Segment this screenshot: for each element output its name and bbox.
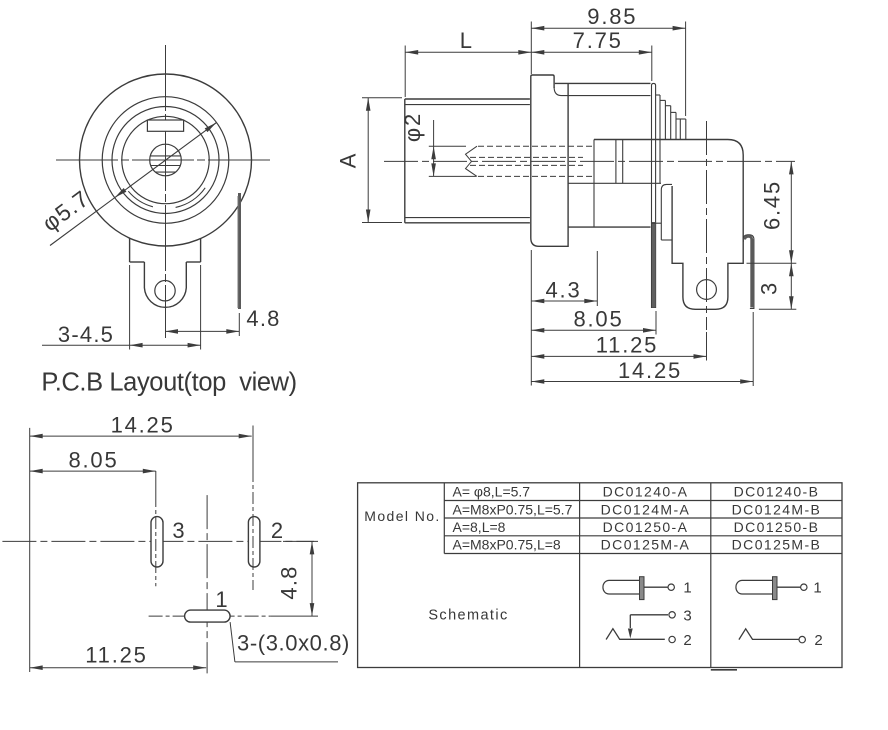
svg-text:4.8: 4.8 <box>246 306 280 331</box>
svg-text:Model No.: Model No. <box>364 508 440 524</box>
svg-text:L: L <box>460 28 474 53</box>
svg-text:A: A <box>336 152 361 168</box>
svg-text:DC01250-A: DC01250-A <box>603 519 689 535</box>
svg-text:14.25: 14.25 <box>111 413 175 438</box>
svg-text:9.85: 9.85 <box>587 4 637 29</box>
svg-text:A= φ8,L=5.7: A= φ8,L=5.7 <box>453 484 531 500</box>
svg-text:4.3: 4.3 <box>546 278 582 303</box>
svg-text:4.8: 4.8 <box>277 565 302 599</box>
svg-text:1: 1 <box>683 580 691 597</box>
svg-text:1: 1 <box>215 587 227 612</box>
svg-text:6.45: 6.45 <box>760 180 785 230</box>
svg-text:11.25: 11.25 <box>596 333 658 358</box>
svg-text:φ2: φ2 <box>400 112 425 142</box>
svg-text:DC01240-B: DC01240-B <box>734 484 820 500</box>
svg-text:2: 2 <box>683 632 691 649</box>
svg-text:3: 3 <box>683 607 691 624</box>
svg-text:DC01240-A: DC01240-A <box>603 484 689 500</box>
svg-text:3-(3.0x0.8): 3-(3.0x0.8) <box>237 631 350 656</box>
svg-text:14.25: 14.25 <box>618 358 682 383</box>
svg-text:A=M8xP0.75,L=8: A=M8xP0.75,L=8 <box>453 537 561 553</box>
svg-text:DC0125M-A: DC0125M-A <box>601 537 691 553</box>
svg-text:DC01250-B: DC01250-B <box>734 519 820 535</box>
svg-text:7.75: 7.75 <box>573 28 623 53</box>
svg-text:DC0125M-B: DC0125M-B <box>732 537 822 553</box>
svg-text:2: 2 <box>814 632 822 649</box>
svg-text:DC0124M-B: DC0124M-B <box>732 501 822 517</box>
svg-text:11.25: 11.25 <box>85 643 147 668</box>
svg-text:P.C.B Layout(top view): P.C.B Layout(top view) <box>41 369 296 397</box>
svg-text:8.05: 8.05 <box>573 307 623 332</box>
svg-text:A=M8xP0.75,L=5.7: A=M8xP0.75,L=5.7 <box>453 501 573 517</box>
svg-text:1: 1 <box>813 580 821 597</box>
svg-text:DC0124M-A: DC0124M-A <box>601 501 691 517</box>
svg-text:3: 3 <box>172 518 184 543</box>
svg-text:3: 3 <box>757 281 782 295</box>
svg-text:2: 2 <box>271 518 283 543</box>
svg-text:Schematic: Schematic <box>428 608 508 624</box>
svg-text:8.05: 8.05 <box>68 448 118 473</box>
svg-text:A=8,L=8: A=8,L=8 <box>453 519 506 535</box>
svg-text:3-4.5: 3-4.5 <box>58 322 114 347</box>
